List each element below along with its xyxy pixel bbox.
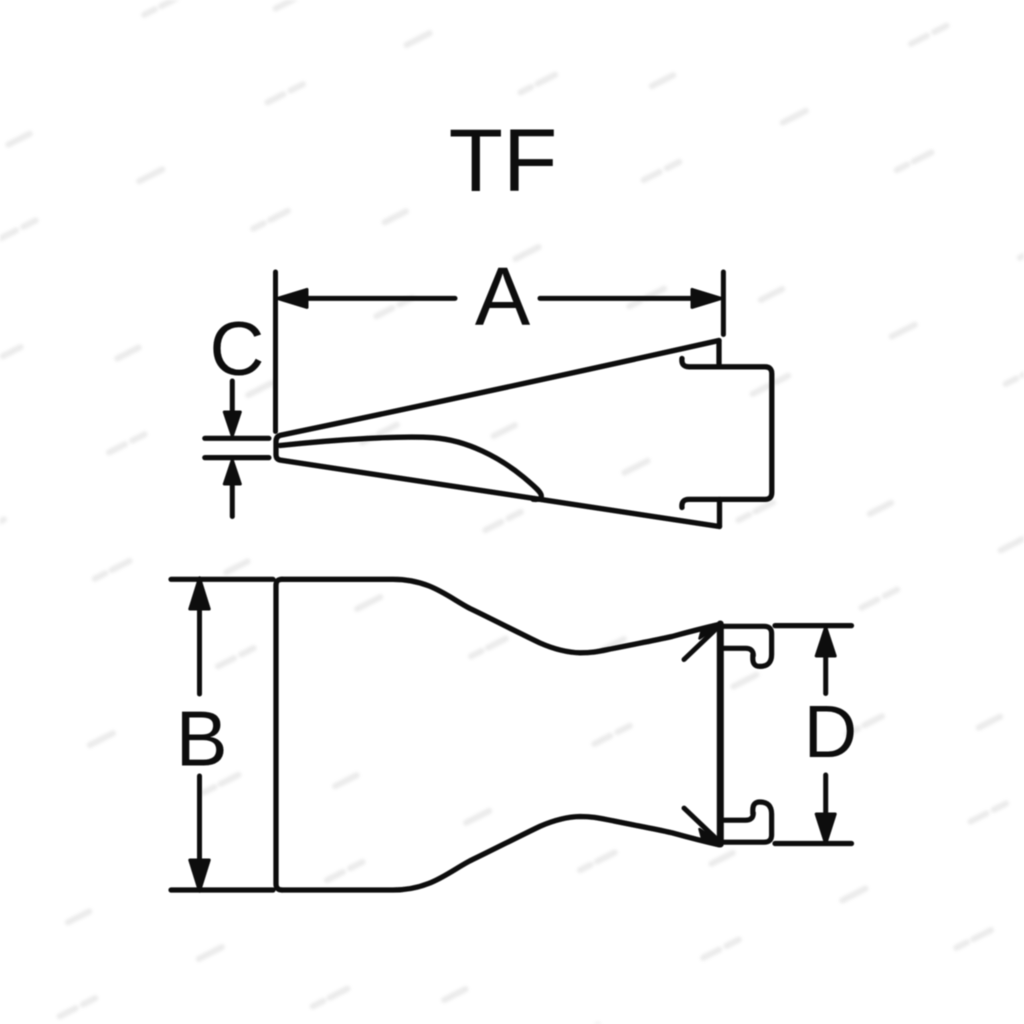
top view collar top inner hook line (724, 648, 754, 655)
top view weld arrow bottom (700, 829, 723, 844)
dimension D top extension line (775, 623, 852, 628)
dimension C lower extension tick (205, 455, 269, 460)
svg-text:C: C (210, 307, 265, 392)
dimension B up arrow (197, 607, 202, 694)
dimension A left extension line (273, 272, 278, 432)
soldering tip top view body outline (282, 579, 719, 653)
dimension C up arrow (230, 484, 235, 517)
top view weld arrow top (700, 624, 723, 639)
top view body bottom edge (282, 817, 719, 891)
dimension B top extension line (171, 577, 273, 582)
side view collar outline (682, 359, 772, 508)
top view collar left edge (717, 624, 724, 844)
dimension D bottom extension line (775, 841, 852, 846)
side view rear top step (716, 341, 721, 367)
dimension A line right segment with arrowhead (540, 296, 695, 301)
top view collar top outer hook (720, 626, 771, 666)
dimension D down arrow (823, 775, 828, 815)
dimension D up arrow (823, 654, 828, 694)
dimension B down arrow (197, 776, 202, 862)
dimension C upper extension tick (205, 436, 269, 441)
dimension C down arrow (230, 381, 235, 414)
top view body left edge (276, 579, 282, 890)
top view collar bottom inner hook line (724, 813, 754, 820)
svg-text:B: B (176, 694, 228, 782)
dimension B bottom extension line (171, 887, 273, 892)
top view collar bottom outer hook (720, 802, 771, 842)
svg-text:TF: TF (449, 110, 558, 210)
side view flat face curve (leaf) (280, 437, 541, 499)
svg-text:D: D (804, 690, 857, 773)
dimension A line left segment with arrowhead (304, 296, 455, 301)
dimension A right extension line (721, 272, 726, 335)
side view rear bottom step (717, 499, 722, 526)
svg-text:A: A (475, 250, 531, 343)
soldering tip side view outline (276, 341, 720, 527)
